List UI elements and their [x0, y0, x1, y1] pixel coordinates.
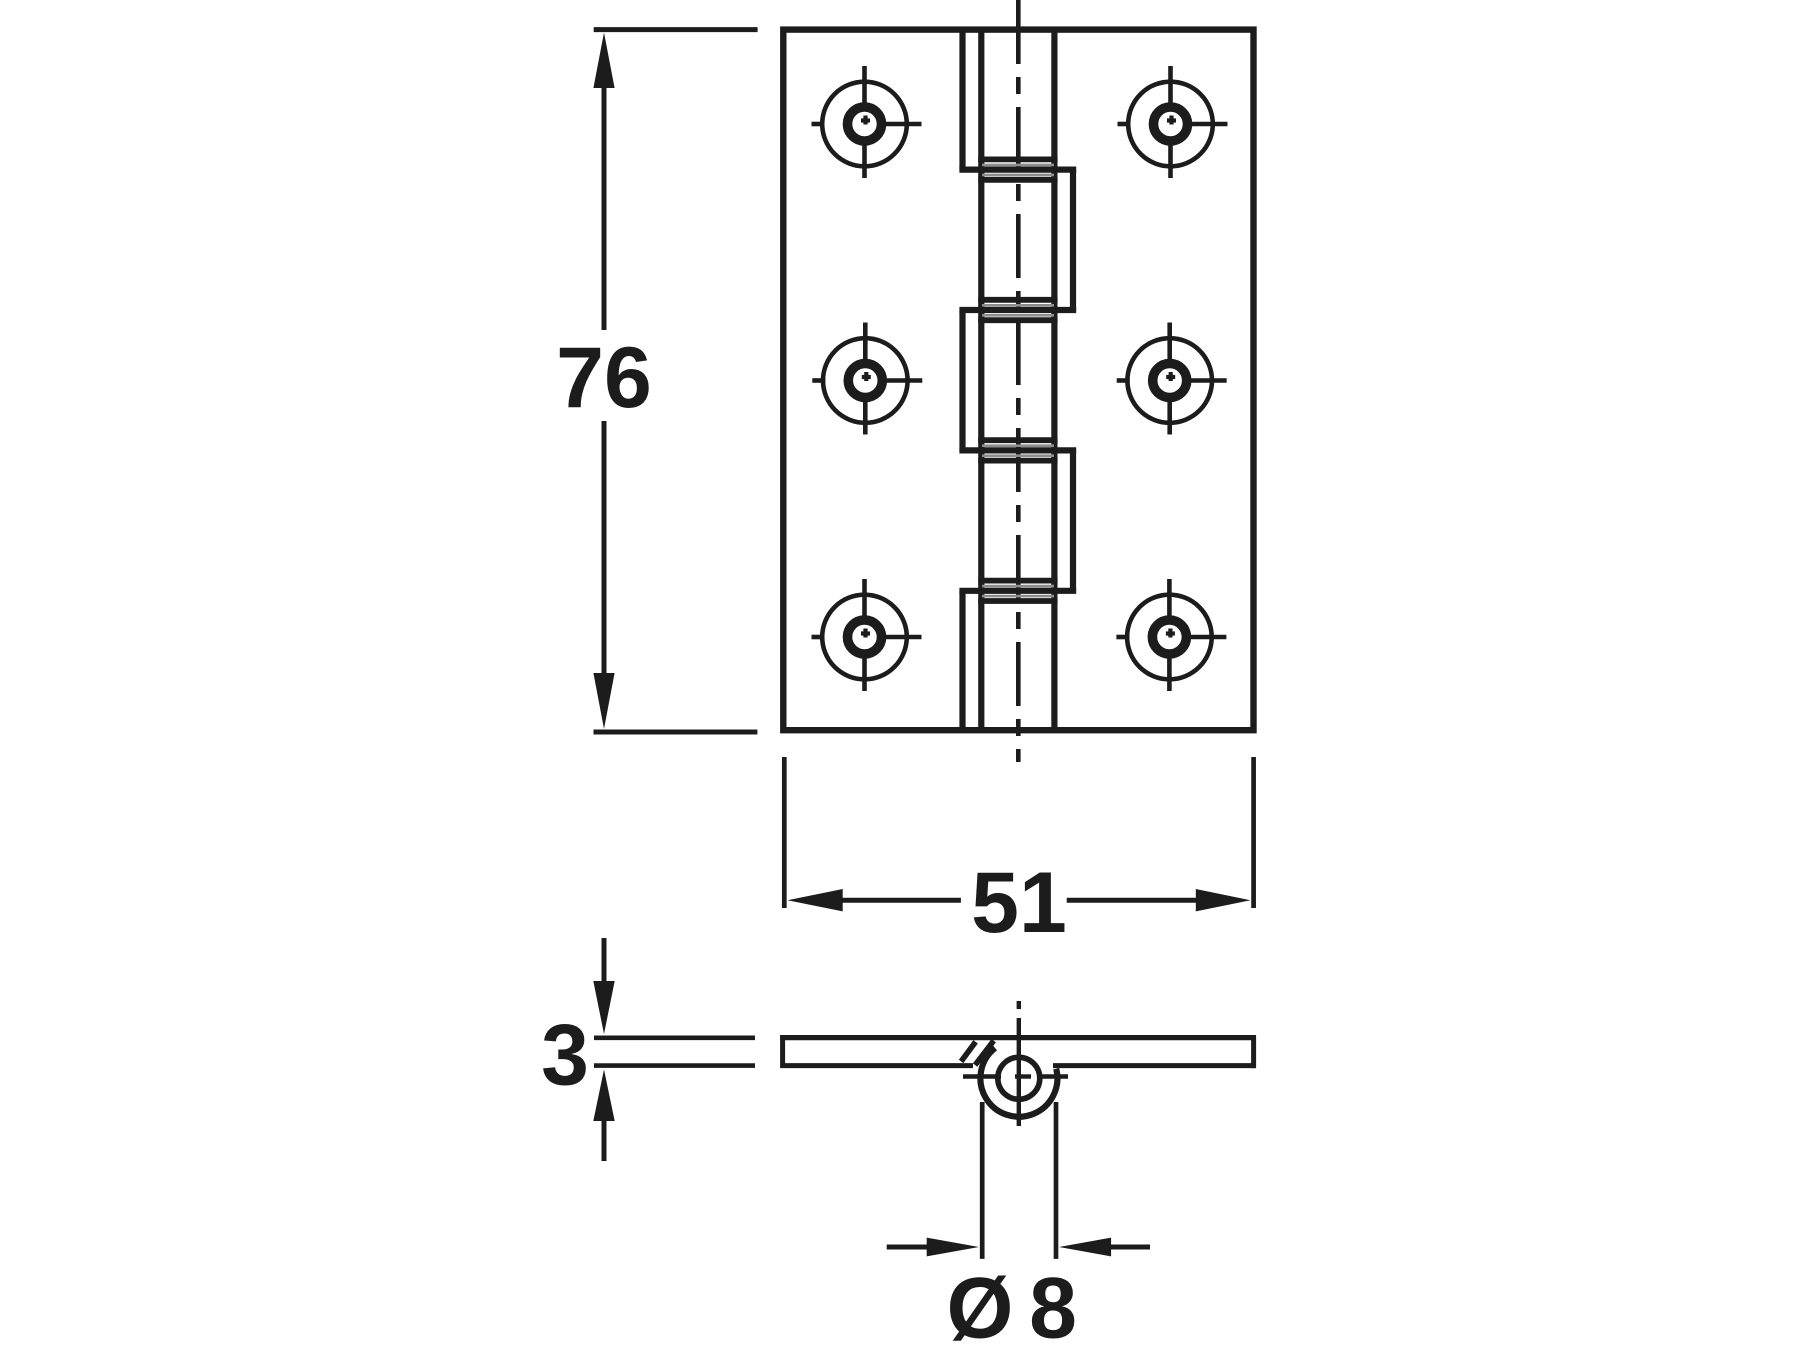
svg-text:8: 8: [1029, 1261, 1077, 1350]
dimension 76: lower arrowhead: [593, 673, 614, 729]
screw hole bottom-right: [1116, 579, 1226, 691]
right leaf knuckle outer edge (segment 2): [1070, 170, 1076, 310]
knuckle barrel left edge: [978, 30, 984, 730]
dimension 76: dimension line upper part: [602, 86, 607, 330]
screw hole middle-left: [812, 323, 922, 435]
side view: pin hole circle: [998, 1057, 1040, 1099]
dimension 3: upper arrow line: [602, 938, 607, 984]
knuckle joint 2: [959, 300, 1076, 320]
dimension diameter 8: left arrowhead (right): [927, 1238, 979, 1257]
side view: bend hatch stroke 2: [975, 1041, 994, 1065]
svg-text:51: 51: [971, 855, 1067, 951]
screw hole middle-right: [1117, 323, 1227, 435]
knuckle joint 3: [959, 440, 1076, 460]
svg-text:3: 3: [541, 1008, 589, 1104]
side view: right leaf bottom edge: [1053, 1063, 1254, 1068]
dimension 76: top extension line: [594, 27, 758, 32]
dimension 51: right extension line: [1251, 757, 1256, 908]
dimension 51: right arrowhead: [1196, 889, 1251, 911]
front view: hinge outer plate rectangle: [783, 30, 1253, 731]
dimension 51: left arrowhead: [788, 889, 843, 911]
side view: left end cap: [780, 1035, 785, 1068]
dimension 3: lower arrow line: [602, 1120, 607, 1161]
left leaf edge line (segment 3): [959, 310, 965, 450]
screw hole top-right: [1118, 66, 1228, 178]
dimension 3: bottom extension line: [594, 1063, 755, 1068]
dimension 51: dimension line right part: [1067, 898, 1197, 903]
knuckle joint 4: [959, 581, 1076, 601]
svg-text:Ø: Ø: [947, 1261, 1014, 1350]
left leaf edge line (segment 1): [959, 31, 965, 170]
dimension 76: upper arrowhead: [593, 33, 614, 89]
dimension diameter 8: right extension line: [1054, 1102, 1059, 1259]
right leaf knuckle outer edge (segment 4): [1070, 450, 1076, 590]
svg-text:76: 76: [556, 330, 652, 426]
side view: bend hatch stroke 1: [961, 1042, 976, 1062]
dimension diameter 8: right arrow tail: [1110, 1245, 1150, 1250]
screw hole top-left: [812, 66, 922, 178]
dimension 76: bottom extension line: [594, 730, 758, 735]
dimension 3: upper arrowhead (down): [593, 981, 614, 1034]
dimension diameter 8: right arrowhead (left): [1059, 1238, 1111, 1257]
side view: leaf top edge: [780, 1035, 1256, 1040]
left leaf edge line (segment 5): [959, 591, 965, 728]
side view: left leaf bottom edge: [780, 1063, 973, 1068]
side view: pin vertical centerline: [1017, 1001, 1021, 1009]
knuckle barrel right edge: [1051, 30, 1057, 730]
dimension diameter 8: left extension line: [980, 1102, 985, 1259]
screw hole bottom-left: [812, 579, 922, 691]
dimension 51: dimension line left part: [841, 898, 961, 903]
dimension diameter 8: left arrow tail: [887, 1245, 928, 1250]
side view: pin horizontal centerline: [963, 1074, 1068, 1078]
knuckle joint 1: [959, 159, 1076, 179]
dimension 3: lower arrowhead (up): [593, 1070, 614, 1122]
side view: knuckle barrel arc: [980, 1048, 1057, 1117]
dimension 76: dimension line lower part: [602, 421, 607, 674]
dimension 51: left extension line: [782, 757, 787, 908]
side view: right end cap: [1251, 1035, 1256, 1068]
front view: hinge pin centerline (vertical dash-dot): [1016, 0, 1021, 762]
dimension 3: top extension line: [594, 1036, 755, 1041]
